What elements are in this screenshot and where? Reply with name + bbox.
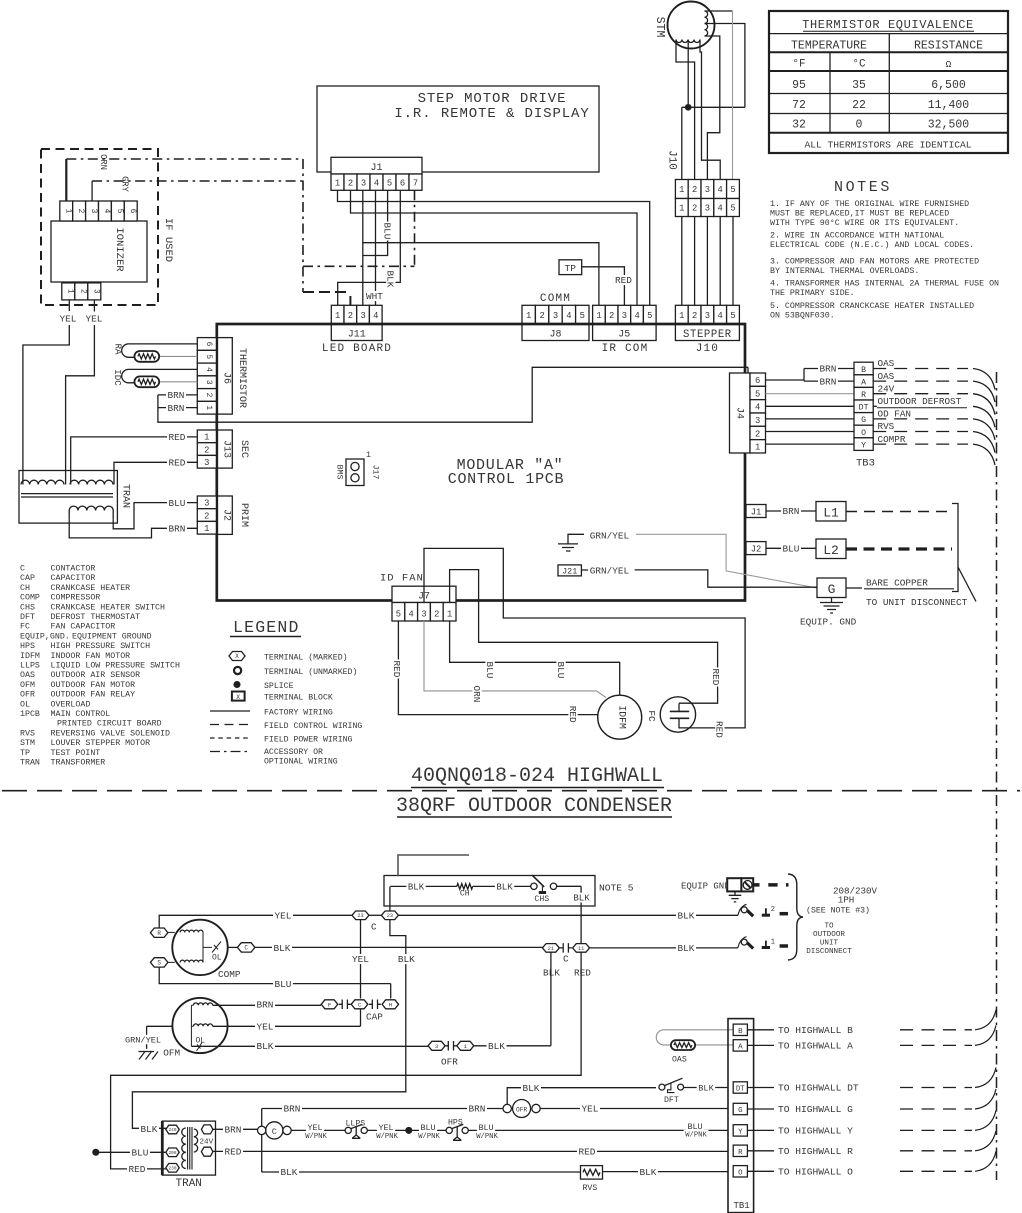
svg-text:BLK: BLK bbox=[385, 271, 396, 288]
svg-text:RVS: RVS bbox=[583, 1184, 598, 1193]
svg-text:32: 32 bbox=[792, 119, 806, 132]
svg-text:3: 3 bbox=[204, 380, 212, 385]
svg-text:BLK: BLK bbox=[698, 1083, 714, 1093]
label ORN bbox=[471, 685, 482, 704]
label BRN bbox=[282, 1104, 302, 1114]
svg-text:BRN: BRN bbox=[820, 364, 837, 375]
wire field power L2 dashed thick bbox=[846, 547, 952, 550]
svg-text:EQUIP,GND.: EQUIP,GND. bbox=[20, 632, 70, 641]
wire BRN J2 pin1 to transformer secondary bbox=[69, 520, 197, 538]
svg-text:RVS: RVS bbox=[20, 729, 35, 738]
svg-text:3: 3 bbox=[204, 499, 209, 509]
svg-text:TO UNIT DISCONNECT: TO UNIT DISCONNECT bbox=[866, 597, 968, 608]
terminal R bbox=[150, 928, 168, 937]
svg-text:W/PNK: W/PNK bbox=[305, 1133, 327, 1141]
wire STM bottom coil right end to J10 pin4 bbox=[700, 40, 720, 180]
svg-text:38QRF OUTDOOR CONDENSER: 38QRF OUTDOOR CONDENSER bbox=[396, 795, 672, 818]
label BLU bbox=[484, 661, 495, 680]
legend accessory wiring bbox=[210, 748, 338, 767]
svg-text:1: 1 bbox=[679, 204, 684, 214]
relay contact OFR 1 bbox=[457, 1041, 474, 1050]
wire BLK DFT branch from OFR coil bbox=[507, 1088, 656, 1105]
svg-text:4: 4 bbox=[373, 311, 378, 321]
svg-text:40QNQ018-024 HIGHWALL: 40QNQ018-024 HIGHWALL bbox=[411, 765, 663, 788]
svg-text:LEGEND: LEGEND bbox=[233, 618, 300, 637]
wire RED J13 pin1 to transformer bbox=[71, 437, 198, 485]
svg-text:RED: RED bbox=[129, 1164, 146, 1175]
svg-text:EQUIP. GND: EQUIP. GND bbox=[800, 617, 857, 628]
svg-text:RED: RED bbox=[391, 661, 402, 678]
wire accessory dashed ORN run bbox=[66, 158, 303, 160]
wire accessory dashed to J1 pin7 bbox=[303, 265, 415, 267]
svg-text:HPS: HPS bbox=[448, 1119, 463, 1128]
svg-text:LED BOARD: LED BOARD bbox=[322, 343, 392, 355]
svg-text:CAP: CAP bbox=[366, 1012, 383, 1023]
svg-text:STM: STM bbox=[20, 739, 35, 748]
svg-text:95: 95 bbox=[792, 79, 806, 92]
connector J1 bbox=[331, 157, 422, 190]
wire field L1 dashed bbox=[846, 511, 952, 513]
svg-text:TEST POINT: TEST POINT bbox=[51, 749, 101, 758]
svg-text:ORN: ORN bbox=[471, 686, 482, 703]
svg-text:2: 2 bbox=[692, 185, 697, 195]
svg-text:GRN/YEL: GRN/YEL bbox=[590, 566, 630, 577]
svg-text:YEL: YEL bbox=[352, 954, 369, 965]
svg-text:OAS: OAS bbox=[878, 358, 895, 369]
label BLK bbox=[396, 954, 416, 964]
svg-text:2: 2 bbox=[204, 511, 209, 521]
svg-text:BRN: BRN bbox=[820, 376, 837, 387]
wire STM right coil bottom to J10 pin3 bbox=[705, 36, 720, 180]
label BRN bbox=[166, 403, 186, 413]
title 38QRF OUTDOOR CONDENSER bbox=[396, 795, 672, 818]
switch HPS high pressure bbox=[446, 1119, 468, 1141]
svg-text:5: 5 bbox=[580, 311, 585, 321]
svg-text:GRY: GRY bbox=[120, 176, 130, 193]
svg-text:1: 1 bbox=[755, 443, 760, 453]
connector J4 bbox=[730, 373, 766, 453]
legend title bbox=[230, 618, 301, 637]
main control PCB box 1PCB bbox=[217, 324, 745, 601]
svg-text:2: 2 bbox=[609, 311, 614, 321]
svg-text:CRANKCASE HEATER: CRANKCASE HEATER bbox=[51, 584, 131, 593]
svg-text:2: 2 bbox=[692, 204, 697, 214]
svg-text:1: 1 bbox=[679, 311, 684, 321]
label BLU bbox=[273, 979, 293, 989]
wire RVS to TB1 O bbox=[603, 1171, 728, 1173]
label BLU bbox=[381, 222, 392, 241]
svg-text:DFT: DFT bbox=[20, 613, 35, 622]
svg-text:2: 2 bbox=[771, 906, 775, 914]
test point TP bbox=[559, 260, 634, 306]
wire field OAS from TB3 bbox=[873, 368, 968, 370]
svg-text:BMS: BMS bbox=[335, 465, 344, 480]
svg-text:22: 22 bbox=[852, 99, 866, 112]
svg-text:°C: °C bbox=[852, 59, 866, 71]
svg-text:IDFM: IDFM bbox=[617, 705, 628, 729]
svg-text:L1: L1 bbox=[823, 506, 839, 521]
wire field 24V from TB3 bbox=[873, 393, 968, 395]
connector ionizer bottom pins 1-3 bbox=[62, 283, 101, 300]
svg-text:TRAN: TRAN bbox=[20, 759, 40, 768]
svg-text:BLK: BLK bbox=[141, 1124, 158, 1135]
legend terminal unmarked symbol bbox=[234, 667, 357, 677]
label BARE COPPER bbox=[846, 578, 954, 589]
svg-text:DFT: DFT bbox=[664, 1096, 679, 1105]
svg-text:21: 21 bbox=[548, 946, 554, 952]
wire J10 pin2 to stepper header bbox=[694, 217, 696, 306]
wire STM right coil mid tap bbox=[705, 24, 745, 108]
svg-text:1: 1 bbox=[771, 938, 775, 946]
svg-text:6: 6 bbox=[400, 178, 405, 188]
svg-text:230: 230 bbox=[169, 1166, 177, 1171]
svg-text:24V: 24V bbox=[878, 383, 895, 394]
svg-text:BARE COPPER: BARE COPPER bbox=[866, 578, 928, 589]
svg-text:BLU: BLU bbox=[132, 1148, 149, 1159]
svg-text:THERMISTOR: THERMISTOR bbox=[236, 348, 247, 408]
resistor CH crankcase heater bbox=[457, 884, 473, 899]
svg-text:5: 5 bbox=[387, 178, 392, 188]
svg-text:I.R. REMOTE & DISPLAY: I.R. REMOTE & DISPLAY bbox=[394, 106, 589, 122]
svg-text:RED: RED bbox=[574, 968, 591, 979]
terminal block TB3 bbox=[854, 362, 875, 469]
label BLK bbox=[676, 943, 696, 953]
svg-text:208: 208 bbox=[169, 1151, 177, 1156]
svg-text:1: 1 bbox=[679, 185, 684, 195]
svg-text:OUTDOOR: OUTDOOR bbox=[813, 931, 845, 939]
wire J1 pin3 to J5 pin1 bbox=[363, 190, 599, 305]
svg-text:1: 1 bbox=[447, 610, 452, 620]
svg-text:COMPRESSOR: COMPRESSOR bbox=[51, 594, 101, 603]
wire OFR to 21 drop bbox=[474, 952, 551, 1046]
label BLK bbox=[697, 1083, 716, 1092]
connector J10 (board side, two rows) bbox=[666, 150, 740, 216]
capacitor CAP terminals bbox=[321, 1000, 338, 1009]
wire YEL OFR coil to TB1 G bbox=[540, 1108, 728, 1110]
svg-text:23: 23 bbox=[357, 913, 363, 919]
wire field TO HIGHWALL B bbox=[747, 1029, 774, 1031]
svg-text:3: 3 bbox=[622, 311, 627, 321]
label RED bbox=[167, 457, 187, 467]
thermistor IDC sensor bbox=[112, 369, 197, 387]
svg-text:2: 2 bbox=[76, 209, 84, 214]
connector J21 bbox=[558, 565, 588, 577]
svg-text:1: 1 bbox=[204, 405, 212, 410]
svg-text:OVERLOAD: OVERLOAD bbox=[51, 700, 91, 709]
svg-text:BLK: BLK bbox=[496, 883, 513, 893]
relay contact OFR 3 bbox=[428, 1041, 445, 1050]
label BLK bbox=[272, 943, 292, 953]
svg-text:OFR: OFR bbox=[516, 1106, 527, 1113]
svg-text:C: C bbox=[244, 945, 248, 952]
svg-text:J17: J17 bbox=[371, 465, 380, 480]
svg-text:RVS: RVS bbox=[878, 421, 895, 432]
svg-text:YEL: YEL bbox=[257, 1022, 274, 1033]
svg-text:S: S bbox=[157, 960, 161, 967]
svg-text:6: 6 bbox=[128, 209, 136, 214]
svg-text:3: 3 bbox=[204, 458, 209, 468]
wire field TO HIGHWALL A bbox=[747, 1044, 774, 1046]
notes text block bbox=[770, 179, 999, 321]
svg-text:B: B bbox=[861, 366, 866, 375]
svg-text:2. WIRE IN ACCORDANCE WITH NAT: 2. WIRE IN ACCORDANCE WITH NATIONAL bbox=[770, 232, 944, 241]
wire accessory dashed GRY run bbox=[92, 180, 303, 182]
label BLK bbox=[676, 910, 696, 920]
svg-text:CH: CH bbox=[20, 584, 30, 593]
separator accessory dashed line bbox=[2, 790, 1020, 792]
wire J4 pin3 to TB3 G bbox=[766, 418, 855, 420]
svg-text:DISCONNECT: DISCONNECT bbox=[806, 948, 852, 956]
svg-text:OAS: OAS bbox=[20, 671, 35, 680]
svg-text:72: 72 bbox=[792, 99, 806, 112]
wire J4 pin6 BRN to TB3 B and A bbox=[766, 369, 855, 382]
wire OFM BRN to CAP F bbox=[213, 1004, 321, 1006]
label RED bbox=[167, 432, 187, 442]
label BRN bbox=[255, 999, 275, 1009]
wire field OD FAN from TB3 bbox=[873, 418, 968, 420]
transformer TRAN (power) bbox=[162, 1121, 215, 1175]
svg-text:OUTDOOR DEFROST: OUTDOOR DEFROST bbox=[878, 396, 962, 407]
svg-text:3: 3 bbox=[360, 311, 365, 321]
wire BLK coil bus to RVS bbox=[262, 1171, 581, 1173]
wire HPS to TB1 Y bbox=[468, 1129, 728, 1131]
svg-text:Y: Y bbox=[738, 1128, 743, 1136]
svg-text:OUTDOOR FAN MOTOR: OUTDOOR FAN MOTOR bbox=[51, 681, 136, 690]
svg-text:UNIT: UNIT bbox=[820, 940, 839, 948]
svg-text:CHS: CHS bbox=[534, 895, 549, 904]
wire field OUTDOOR DEFROST from TB3 bbox=[873, 405, 877, 407]
svg-text:TB3: TB3 bbox=[856, 458, 875, 470]
svg-text:1: 1 bbox=[65, 289, 73, 294]
svg-text:Y: Y bbox=[861, 441, 866, 450]
svg-text:PRINTED CIRCUIT BOARD: PRINTED CIRCUIT BOARD bbox=[57, 720, 162, 729]
svg-text:3: 3 bbox=[91, 289, 99, 294]
svg-text:BLK: BLK bbox=[281, 1167, 298, 1178]
svg-text:J10: J10 bbox=[696, 343, 719, 355]
svg-text:BLU: BLU bbox=[555, 662, 566, 679]
svg-text:CONTACTOR: CONTACTOR bbox=[51, 565, 96, 574]
svg-text:LIQUID LOW PRESSURE SWITCH: LIQUID LOW PRESSURE SWITCH bbox=[51, 662, 180, 671]
label ORN bbox=[98, 153, 108, 171]
connector J7 ID FAN bbox=[380, 573, 456, 622]
wire ORN from ionizer pin1 bbox=[65, 159, 67, 201]
svg-text:BLK: BLK bbox=[488, 1041, 505, 1052]
svg-text:(SEE NOTE #3): (SEE NOTE #3) bbox=[806, 906, 870, 916]
svg-text:CONTROL 1PCB: CONTROL 1PCB bbox=[448, 471, 564, 488]
wire link bbox=[369, 914, 382, 916]
svg-text:5. COMPRESSOR CRANCKCASE HEATE: 5. COMPRESSOR CRANCKCASE HEATER INSTALLE… bbox=[770, 302, 974, 311]
label GRY bbox=[120, 175, 130, 193]
svg-text:1: 1 bbox=[204, 433, 209, 443]
svg-text:3: 3 bbox=[705, 311, 710, 321]
svg-text:BRN: BRN bbox=[783, 506, 800, 517]
wire BRN run to J4 pin6 bbox=[158, 367, 748, 422]
wire 11 to L1 switch bbox=[590, 947, 738, 949]
svg-text:2: 2 bbox=[434, 610, 439, 620]
legend splice symbol bbox=[234, 682, 293, 691]
wire J4 pin5 to TB3 R (light) bbox=[766, 393, 855, 395]
svg-text:2: 2 bbox=[348, 311, 353, 321]
svg-text:23: 23 bbox=[387, 913, 393, 919]
thermistor equivalence table bbox=[769, 11, 1008, 153]
splice terminal 23 bbox=[352, 911, 369, 920]
wire J1 pin2 to J5 pin4 bbox=[351, 190, 638, 305]
wire J1 pin7 accessory dashed bbox=[414, 190, 416, 266]
svg-text:EQUIP GND: EQUIP GND bbox=[681, 882, 730, 892]
wire OFM BLK to OFR contact bbox=[191, 1045, 428, 1047]
step motor drive display box bbox=[317, 86, 599, 172]
wire BRN to OFR coil bbox=[262, 1108, 503, 1110]
wire YEL ionizer pin1 down bbox=[68, 300, 70, 311]
capacitor FC bbox=[646, 697, 696, 732]
svg-text:TERMINAL (MARKED): TERMINAL (MARKED) bbox=[264, 652, 348, 662]
svg-text:1: 1 bbox=[596, 311, 601, 321]
svg-text:RED: RED bbox=[169, 432, 186, 443]
terminal L1 bbox=[816, 502, 846, 522]
svg-text:THERMISTOR EQUIVALENCE: THERMISTOR EQUIVALENCE bbox=[802, 18, 974, 32]
label BLU W/PNK bbox=[419, 1123, 437, 1132]
svg-text:240: 240 bbox=[169, 1128, 177, 1133]
svg-text:TO HIGHWALL O: TO HIGHWALL O bbox=[778, 1166, 853, 1177]
svg-text:6: 6 bbox=[204, 342, 212, 347]
connector J13 SEC bbox=[197, 430, 249, 468]
wire DFT to TB1 DT bbox=[684, 1087, 728, 1089]
label BLU W/PNK bbox=[477, 1123, 495, 1132]
connector J8 COMM bbox=[522, 293, 589, 341]
switch DFT defrost thermostat bbox=[659, 1078, 684, 1105]
svg-text:STEPPER: STEPPER bbox=[683, 329, 732, 341]
svg-text:OL: OL bbox=[212, 954, 222, 963]
switch L2 field disconnect bbox=[738, 904, 788, 916]
svg-text:J2: J2 bbox=[221, 509, 232, 521]
svg-text:R: R bbox=[738, 1149, 743, 1157]
svg-text:GRN/YEL: GRN/YEL bbox=[125, 1035, 161, 1045]
wire GRY from ionizer pin3 bbox=[91, 181, 93, 201]
svg-text:RED: RED bbox=[710, 669, 721, 686]
connector J2 PRIM bbox=[197, 496, 249, 534]
svg-text:FC: FC bbox=[20, 623, 30, 632]
svg-text:3: 3 bbox=[89, 209, 97, 214]
wire STM bottom coil center tap to junction bbox=[687, 40, 689, 108]
svg-text:RED: RED bbox=[579, 1147, 596, 1158]
wire OFM YEL to CAP C bottom bbox=[213, 1009, 361, 1027]
label BLK bbox=[385, 270, 396, 289]
terminal C bbox=[237, 943, 255, 952]
svg-text:RESISTANCE: RESISTANCE bbox=[914, 40, 983, 53]
ground symbol equip gnd bbox=[800, 598, 857, 628]
svg-text:COMPR: COMPR bbox=[878, 434, 906, 445]
svg-text:2: 2 bbox=[204, 393, 212, 398]
wire J10 pin1 to stepper header bbox=[681, 217, 683, 306]
wire common vertical (coil bus) bbox=[261, 1109, 263, 1173]
svg-text:4: 4 bbox=[566, 311, 571, 321]
svg-text:OFM: OFM bbox=[163, 1048, 180, 1059]
svg-text:11,400: 11,400 bbox=[928, 99, 970, 112]
ionizer assembly (IF USED) bbox=[41, 149, 174, 305]
svg-text:OFR: OFR bbox=[441, 1057, 458, 1068]
wire RED J13 pin3 to transformer bbox=[114, 462, 197, 484]
label BLK bbox=[572, 893, 591, 903]
label BLK bbox=[521, 1083, 541, 1093]
wire RED 11 drop to transformer 230 bbox=[111, 952, 581, 1169]
svg-text:WITH TYPE 90°C WIRE OR ITS EQU: WITH TYPE 90°C WIRE OR ITS EQUIVALENT. bbox=[770, 219, 959, 228]
svg-text:TRANSFORMER: TRANSFORMER bbox=[51, 759, 106, 768]
wire bbox=[473, 885, 531, 887]
svg-text:ACCESSORY OR: ACCESSORY OR bbox=[264, 748, 323, 757]
svg-text:ID FAN: ID FAN bbox=[380, 573, 424, 585]
svg-text:TO HIGHWALL A: TO HIGHWALL A bbox=[778, 1040, 853, 1051]
wire J4 pin2 to TB3 O bbox=[766, 431, 855, 433]
svg-text:2: 2 bbox=[692, 311, 697, 321]
svg-text:4: 4 bbox=[718, 185, 723, 195]
svg-text:2: 2 bbox=[539, 311, 544, 321]
svg-text:5: 5 bbox=[396, 610, 401, 620]
label RED bbox=[614, 275, 634, 285]
svg-text:RED: RED bbox=[615, 275, 632, 286]
svg-text:CAP: CAP bbox=[20, 574, 35, 583]
label BLK bbox=[406, 882, 425, 892]
svg-text:COMM: COMM bbox=[540, 293, 571, 305]
label YEL bbox=[351, 954, 371, 964]
wire field COMPR from TB3 bbox=[873, 443, 968, 445]
svg-text:COMP: COMP bbox=[218, 969, 241, 980]
svg-text:TRAN: TRAN bbox=[176, 1178, 202, 1190]
wire J7 pin5 RED to IDFM bbox=[398, 621, 598, 715]
svg-text:BLK: BLK bbox=[274, 943, 291, 954]
legend field power wiring bbox=[210, 735, 353, 744]
svg-text:3: 3 bbox=[705, 204, 710, 214]
svg-text:ORN: ORN bbox=[98, 154, 108, 170]
label BRN bbox=[467, 1104, 487, 1114]
svg-text:BLK: BLK bbox=[523, 1083, 540, 1094]
svg-text:WHT: WHT bbox=[366, 291, 383, 302]
wire J21 to G terminal bbox=[635, 570, 817, 587]
svg-text:BLK: BLK bbox=[640, 1167, 657, 1178]
svg-text:3: 3 bbox=[705, 185, 710, 195]
wire J1 pin5 to J11 pin3 (BLU) bbox=[363, 190, 388, 305]
svg-text:2: 2 bbox=[78, 289, 86, 294]
label BRN bbox=[223, 1124, 243, 1134]
svg-text:J8: J8 bbox=[549, 330, 561, 341]
jumper J17 BMS bbox=[335, 451, 380, 486]
svg-text:5: 5 bbox=[730, 204, 735, 214]
splice dot field bbox=[93, 1149, 99, 1155]
label RED bbox=[567, 705, 578, 724]
svg-text:DT: DT bbox=[859, 404, 869, 413]
louver stepper motor STM bbox=[653, 2, 715, 49]
svg-text:PRIM: PRIM bbox=[238, 503, 249, 527]
svg-text:BLU: BLU bbox=[381, 223, 392, 240]
svg-text:A: A bbox=[861, 378, 866, 387]
svg-text:BLK: BLK bbox=[573, 894, 590, 904]
svg-text:BLU: BLU bbox=[169, 498, 186, 509]
svg-text:YEL: YEL bbox=[60, 314, 77, 325]
svg-text:2: 2 bbox=[204, 445, 209, 455]
wire BRN J6 pin2 bbox=[158, 394, 197, 396]
svg-text:FAN CAPACITOR: FAN CAPACITOR bbox=[51, 623, 116, 632]
svg-text:BRN: BRN bbox=[168, 403, 185, 414]
bracket unit disconnect bbox=[952, 504, 976, 602]
svg-text:5: 5 bbox=[755, 389, 760, 399]
svg-text:BRN: BRN bbox=[225, 1125, 242, 1136]
svg-text:4: 4 bbox=[102, 209, 110, 214]
svg-text:5: 5 bbox=[647, 311, 652, 321]
label BLU bbox=[781, 543, 801, 553]
svg-text:BLK: BLK bbox=[408, 883, 425, 893]
svg-text:TO HIGHWALL G: TO HIGHWALL G bbox=[778, 1104, 853, 1115]
svg-text:J1: J1 bbox=[751, 507, 762, 517]
motor IDFM bbox=[598, 695, 642, 739]
